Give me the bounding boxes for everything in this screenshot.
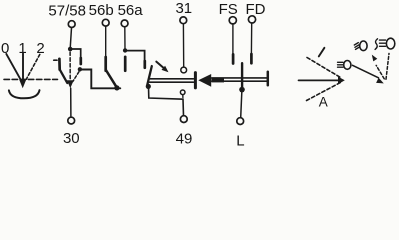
dip dashed ray vertical — [386, 54, 389, 80]
contact stub FS — [232, 54, 235, 63]
rotary switch position ray 2 (dashed) — [26, 54, 40, 79]
svg-text:49: 49 — [176, 130, 193, 147]
wire 31 down — [182, 24, 184, 67]
terminal 49 circle — [180, 116, 187, 123]
dip dashed ray to low beam — [376, 65, 384, 78]
svg-text:56a: 56a — [118, 2, 144, 19]
junction dot 56a — [123, 48, 127, 52]
dashed contact diagonal — [73, 72, 79, 82]
contact stub below 56a junction — [124, 57, 127, 71]
junction dot right contact — [78, 67, 82, 71]
terminal 56b circle — [102, 19, 109, 26]
svg-text:30: 30 — [63, 130, 80, 147]
center arm arrowhead — [239, 87, 245, 93]
bus arrowhead left — [198, 74, 211, 87]
dip solid arrowhead — [376, 78, 384, 84]
contact stub 56a hook — [143, 61, 146, 68]
svg-text:31: 31 — [175, 0, 192, 17]
high beam lamp curl — [375, 39, 377, 50]
terminal 56a circle — [121, 20, 128, 27]
legend dashed ray lower left — [307, 82, 341, 100]
rod upper line — [212, 77, 267, 79]
upper contact circle — [181, 67, 187, 73]
wire FS down — [232, 24, 234, 54]
rod lower line — [212, 80, 267, 82]
rotary switch position ray 1 — [22, 53, 24, 80]
terminal L circle — [237, 118, 244, 125]
mechanical link dashed line — [4, 78, 58, 80]
rotary switch position ray 0 — [6, 54, 21, 80]
terminal FS circle — [229, 17, 236, 24]
low beam lamp rays — [354, 43, 358, 45]
rotary switch arrowhead — [19, 80, 26, 89]
legend solid arrow line — [299, 79, 339, 81]
bus T bar — [194, 73, 197, 88]
lamp 1 body — [344, 61, 351, 70]
rotary switch arc — [9, 90, 40, 98]
lamp 1 rays — [338, 61, 344, 63]
dip solid ray — [353, 65, 379, 78]
bus arrow tail block — [212, 78, 225, 82]
bus bar left segment lower — [150, 81, 194, 83]
blade top tick — [54, 59, 57, 61]
bus bar left segment upper — [150, 78, 194, 80]
svg-text:FS: FS — [219, 1, 238, 18]
contact stub FD — [250, 54, 253, 63]
main switch arrowhead — [67, 80, 74, 88]
dimmer pivot dot — [146, 84, 151, 89]
wire FD down — [250, 23, 252, 54]
svg-text:L: L — [236, 132, 244, 149]
lower contact circle — [180, 90, 185, 95]
low beam lamp body — [360, 41, 367, 51]
high beam lamp rays — [380, 39, 386, 41]
wire 56a down — [124, 27, 126, 49]
wire pivot to 49 — [149, 86, 184, 115]
svg-text:57/58: 57/58 — [48, 3, 86, 20]
rod end bar — [267, 72, 270, 86]
legend solid arrowhead — [338, 77, 345, 85]
dimmer blade — [147, 66, 152, 85]
wire to L — [241, 90, 242, 118]
contact stub main — [58, 59, 61, 70]
actuation arrowhead — [162, 66, 169, 73]
wire hook to 56b junction — [80, 70, 120, 89]
terminal 31 circle — [180, 17, 187, 24]
contact stub 56b — [104, 57, 107, 71]
wire to terminal 30 — [70, 88, 72, 117]
svg-text:FD: FD — [246, 1, 266, 18]
high beam lamp body — [386, 38, 394, 49]
actuation arrow line — [156, 62, 164, 69]
legend tick — [319, 48, 325, 57]
dip dashed arrowhead — [372, 55, 378, 62]
stem lower circle — [182, 95, 184, 98]
junction dot 56b blade — [114, 85, 119, 90]
blade 56b — [106, 70, 117, 87]
center arm — [241, 63, 243, 87]
svg-text:56b: 56b — [89, 2, 114, 19]
svg-text:0: 0 — [1, 40, 9, 57]
junction dot 57/58 — [68, 47, 73, 52]
switch blade main — [60, 69, 68, 83]
wire 56b down — [105, 26, 107, 57]
wire junction right — [70, 49, 81, 59]
legend dashed ray upper left — [307, 58, 341, 78]
svg-text:2: 2 — [36, 40, 44, 57]
terminal FD circle — [248, 16, 255, 23]
svg-text:A: A — [319, 94, 328, 109]
contact stub 57/58 right — [79, 58, 82, 64]
wire 57/58 to junction — [70, 28, 71, 47]
wire 56a hook right — [125, 51, 145, 61]
dashed contact below 57/58 junction — [69, 52, 71, 79]
terminal 57/58 circle — [68, 21, 75, 28]
terminal 30 circle — [68, 117, 75, 124]
